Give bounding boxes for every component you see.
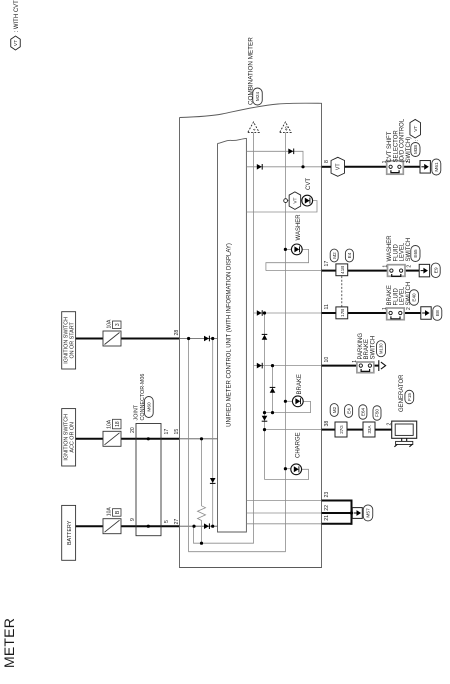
svg-text:ACC OR ON: ACC OR ON	[70, 422, 76, 453]
svg-text:SELECTOR: SELECTOR	[393, 130, 399, 163]
svg-text:10A: 10A	[107, 319, 113, 329]
svg-text:E4: E4	[347, 252, 352, 258]
svg-text:17B: 17B	[340, 309, 345, 317]
svg-text:M60: M60	[147, 402, 153, 412]
svg-text:27G: 27G	[339, 425, 344, 434]
svg-text:18: 18	[115, 421, 121, 427]
svg-text:21: 21	[324, 515, 330, 521]
svg-text:33A: 33A	[367, 425, 372, 433]
svg-text:5: 5	[164, 520, 170, 523]
svg-text:E4: E4	[346, 408, 351, 414]
svg-text:E64: E64	[361, 407, 366, 416]
svg-text:8: 8	[324, 160, 330, 163]
svg-text:E65: E65	[413, 249, 418, 258]
svg-text:17: 17	[164, 429, 170, 435]
svg-text:46: 46	[284, 126, 289, 131]
svg-text:17: 17	[324, 261, 330, 267]
svg-text:3: 3	[115, 323, 121, 326]
svg-text:PARKING: PARKING	[358, 333, 364, 360]
svg-text:WASHER: WASHER	[296, 214, 302, 241]
svg-text:38: 38	[324, 421, 330, 427]
svg-text:BRAKE: BRAKE	[364, 339, 370, 359]
svg-text:F50: F50	[375, 409, 380, 417]
svg-text:2: 2	[406, 307, 412, 310]
svg-text:M130: M130	[379, 343, 384, 354]
svg-text:ON OR START: ON OR START	[70, 321, 76, 358]
svg-text:10: 10	[324, 357, 330, 363]
svg-text:FLUID: FLUID	[393, 243, 399, 261]
svg-text:CVT: CVT	[306, 178, 312, 190]
svg-text:10A: 10A	[107, 419, 113, 429]
svg-text:BRAKE: BRAKE	[297, 374, 303, 394]
svg-text:10A: 10A	[107, 507, 113, 517]
svg-text:BATTERY: BATTERY	[67, 520, 73, 545]
svg-text:22: 22	[324, 505, 330, 511]
svg-text:WASHER: WASHER	[387, 235, 393, 262]
svg-text:M2: M2	[332, 406, 337, 413]
svg-text:METER: METER	[1, 618, 17, 668]
svg-text:2: 2	[406, 265, 412, 268]
svg-text:GENERATOR: GENERATOR	[399, 374, 405, 412]
svg-text:F15: F15	[407, 393, 412, 401]
svg-text:UNIFIED METER CONTROL UNIT (WI: UNIFIED METER CONTROL UNIT (WITH INFORMA…	[227, 243, 233, 427]
svg-text:23: 23	[324, 492, 330, 498]
svg-text:11: 11	[324, 304, 330, 309]
svg-text:M38: M38	[413, 145, 418, 154]
svg-text:M61: M61	[434, 162, 440, 172]
svg-text:VT: VT	[293, 197, 299, 203]
svg-text:FLUID: FLUID	[393, 287, 399, 305]
svg-text:M2: M2	[332, 252, 337, 259]
svg-text:20: 20	[130, 427, 136, 433]
svg-text:M57: M57	[366, 508, 372, 518]
svg-text:15: 15	[174, 429, 180, 435]
svg-text:LEVEL: LEVEL	[400, 286, 406, 305]
svg-text:VT: VT	[413, 126, 419, 132]
svg-text:: WITH CVT: : WITH CVT	[14, 0, 20, 33]
svg-text:E8: E8	[435, 310, 441, 316]
svg-text:E9: E9	[433, 267, 439, 273]
svg-text:CVT SHIFT: CVT SHIFT	[387, 131, 393, 162]
svg-text:41B: 41B	[340, 266, 345, 274]
svg-text:VT: VT	[336, 163, 342, 170]
svg-text:SWITCH: SWITCH	[370, 336, 376, 360]
svg-text:VT: VT	[13, 40, 19, 46]
svg-text:M24: M24	[255, 92, 260, 102]
svg-text:LEVEL: LEVEL	[400, 242, 406, 261]
svg-text:BRAKE: BRAKE	[387, 285, 393, 305]
svg-text:CHARGE: CHARGE	[296, 432, 302, 458]
svg-text:9: 9	[130, 518, 136, 521]
svg-text:1: 1	[382, 265, 388, 268]
svg-text:1: 1	[382, 307, 388, 310]
svg-text:28: 28	[174, 330, 180, 336]
svg-text:27: 27	[174, 519, 180, 525]
svg-text:E40: E40	[412, 293, 417, 302]
svg-text:JOINT: JOINT	[134, 404, 140, 420]
svg-text:(O/D CONTROL: (O/D CONTROL	[400, 118, 406, 162]
